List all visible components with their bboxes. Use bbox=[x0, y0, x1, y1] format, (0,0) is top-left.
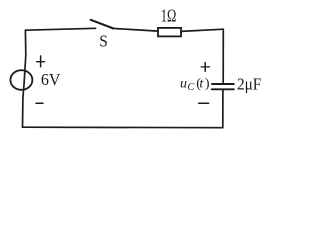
svg-text:S: S bbox=[99, 32, 108, 51]
svg-text:6V: 6V bbox=[41, 70, 61, 89]
svg-text:2μF: 2μF bbox=[237, 74, 261, 93]
svg-text:1Ω: 1Ω bbox=[161, 5, 177, 25]
